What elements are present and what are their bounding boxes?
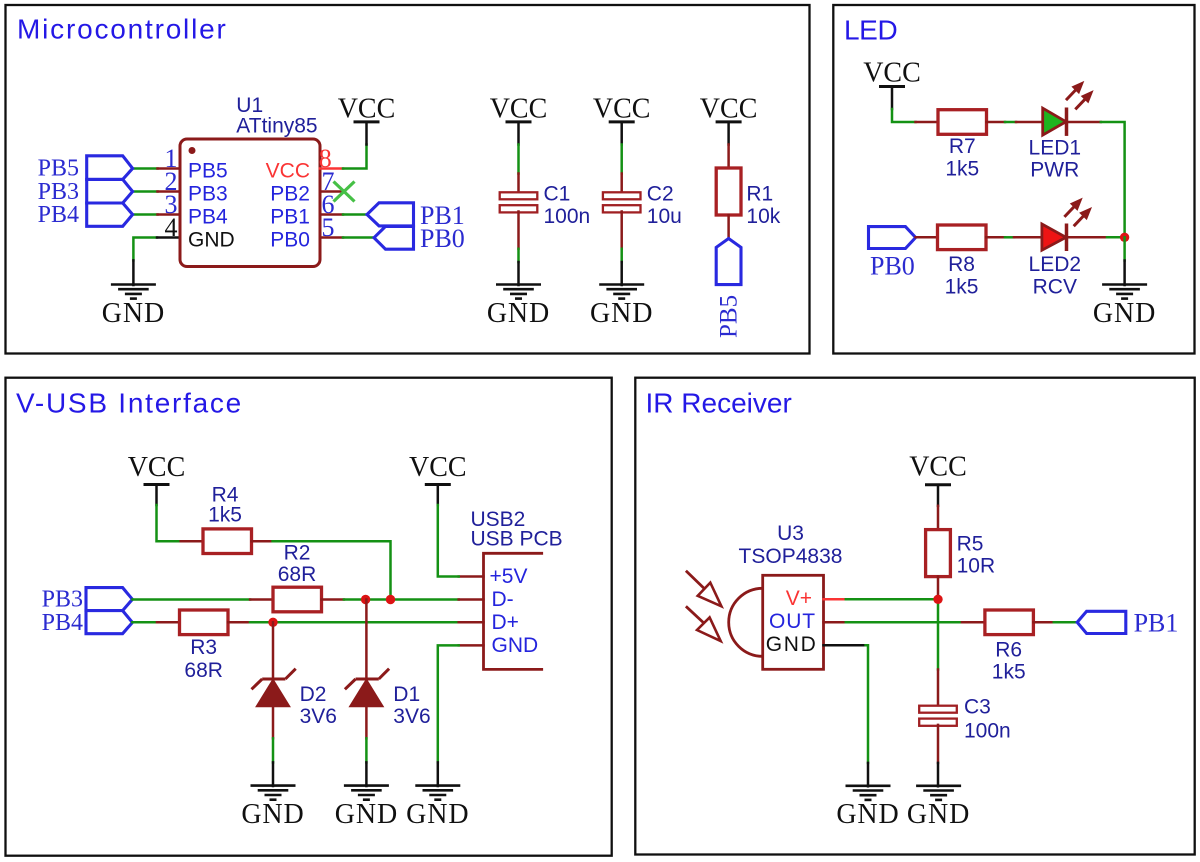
GND stem below U3 (black) xyxy=(867,763,870,786)
wire: junction to GND (green) xyxy=(1123,237,1126,260)
junction dot (LED rail) xyxy=(1120,233,1129,242)
svg-text:D1: D1 xyxy=(393,683,420,706)
lead C3 bottom (maroon) xyxy=(937,725,940,763)
svg-text:PB3: PB3 xyxy=(42,587,83,613)
lead C3 top (maroon) xyxy=(937,670,940,707)
svg-text:PB4: PB4 xyxy=(188,206,228,229)
frame: V-USB Interface section box xyxy=(6,378,612,856)
svg-text:1k5: 1k5 xyxy=(992,660,1026,683)
no-connect X on pin 7 xyxy=(334,182,355,202)
svg-text:C1: C1 xyxy=(544,183,571,206)
svg-text:PB4: PB4 xyxy=(38,202,79,228)
svg-text:C2: C2 xyxy=(647,183,674,206)
net flag PB3 (V-USB) xyxy=(86,588,132,611)
U3 sensor dome xyxy=(729,588,763,656)
IC U1 body xyxy=(180,139,320,267)
ground symbol below U3 xyxy=(846,784,891,787)
lead D1 anode (maroon) xyxy=(365,706,368,738)
lead R6 right (maroon) xyxy=(1033,621,1053,624)
wire: PB4 flag to U1 pin 3 (green) xyxy=(133,213,158,216)
svg-text:OUT: OUT xyxy=(769,610,816,633)
svg-text:10u: 10u xyxy=(647,205,682,228)
lead R7 left (maroon) xyxy=(916,121,939,124)
GND stem below USB (black) xyxy=(437,762,440,786)
svg-text:GND: GND xyxy=(335,799,398,830)
VCC stem (black) xyxy=(155,485,158,506)
resistor R8 xyxy=(938,225,987,250)
svg-text:VCC: VCC xyxy=(128,452,186,483)
VCC stem (black) xyxy=(891,87,894,110)
svg-text:100n: 100n xyxy=(964,719,1011,742)
GND stem below C2 (black) xyxy=(620,262,623,285)
lead C1 top (maroon) xyxy=(517,174,520,194)
frame: IR Receiver section box xyxy=(635,378,1194,855)
GND stem below D1 (black) xyxy=(365,762,368,786)
svg-text:D-: D- xyxy=(492,588,514,611)
wire: LED1 to right rail (green) xyxy=(1101,122,1125,237)
svg-text:3V6: 3V6 xyxy=(393,705,430,728)
U1 pin-1 orientation dot xyxy=(189,147,196,154)
svg-text:GND: GND xyxy=(836,799,899,830)
pin lead U3 GND (black) xyxy=(824,644,866,647)
svg-text:PB2: PB2 xyxy=(270,183,310,206)
resistor R1 xyxy=(716,168,741,215)
svg-text:VCC: VCC xyxy=(863,58,921,89)
svg-text:4: 4 xyxy=(165,213,178,242)
svg-text:PB4: PB4 xyxy=(42,610,83,636)
svg-text:R5: R5 xyxy=(957,533,984,556)
pin lead U1-7 (maroon) xyxy=(320,190,343,193)
pin lead U1-6 (maroon) xyxy=(320,213,343,216)
svg-text:10R: 10R xyxy=(957,554,996,577)
connector USB2 body (open box) xyxy=(484,553,542,669)
zener diode D1 lead from D- (maroon) xyxy=(365,600,368,678)
lead C1 bottom (maroon) xyxy=(517,212,520,249)
svg-text:68R: 68R xyxy=(278,563,317,586)
pin lead USB D+ (maroon) xyxy=(459,621,484,624)
pin lead USB +5V (maroon) xyxy=(459,575,484,578)
svg-text:100n: 100n xyxy=(544,205,591,228)
lead R5 bottom (maroon) xyxy=(937,577,940,600)
ground symbol below C2 xyxy=(599,283,644,286)
svg-text:GND: GND xyxy=(1093,298,1156,329)
frame: LED section box xyxy=(833,5,1194,354)
svg-text:IR Receiver: IR Receiver xyxy=(646,388,792,419)
resistor R3 xyxy=(180,610,229,635)
svg-text:V+: V+ xyxy=(786,587,812,610)
pin lead USB GND (maroon) xyxy=(459,644,484,647)
lead LED2 anode (maroon) xyxy=(1014,236,1042,239)
svg-text:PB1: PB1 xyxy=(1134,608,1179,637)
svg-text:GND: GND xyxy=(487,298,550,329)
wire: PB4 flag to R3 (green) xyxy=(132,621,157,624)
wire: R3 to USB D+ (green) xyxy=(250,621,459,624)
GND stem (black) xyxy=(1123,261,1126,286)
ground symbol below C3 xyxy=(916,784,961,787)
svg-text:PB5: PB5 xyxy=(188,160,228,183)
pin lead U3 V+ (red) xyxy=(824,598,846,601)
svg-text:Microcontroller: Microcontroller xyxy=(17,14,228,45)
svg-text:PB0: PB0 xyxy=(420,224,465,253)
svg-text:10k: 10k xyxy=(746,205,780,228)
lead LED2 cathode (maroon) xyxy=(1068,236,1107,239)
LED1 cathode bar xyxy=(1065,108,1069,136)
LED2 cathode bar xyxy=(1065,224,1069,252)
wire: V+ to R5 junction (green) xyxy=(846,598,938,601)
ground symbol below D2 xyxy=(251,784,296,787)
wire: C1 to GND (green) xyxy=(517,249,520,262)
net flag PB5 (left stack) xyxy=(87,156,133,180)
lead R5 top (maroon) xyxy=(937,506,940,531)
svg-text:R1: R1 xyxy=(746,183,773,206)
resistor R2 xyxy=(273,587,322,612)
wire: VCC elbow to R4 (green) xyxy=(157,505,181,541)
svg-text:VCC: VCC xyxy=(409,452,467,483)
svg-text:VCC: VCC xyxy=(909,452,967,483)
svg-text:USB PCB: USB PCB xyxy=(471,528,563,551)
wire: VCC to C2 (green) xyxy=(620,145,623,174)
pin lead USB D- (maroon) xyxy=(459,598,484,601)
LED LED1 (green) triangle xyxy=(1043,108,1066,135)
pin lead U1-8 VCC (red) xyxy=(320,167,343,170)
svg-text:PB5: PB5 xyxy=(716,295,743,338)
zener diode D2 xyxy=(262,678,285,681)
zener diode D1 xyxy=(356,678,379,681)
svg-text:GND: GND xyxy=(907,799,970,830)
svg-text:VCC: VCC xyxy=(700,93,758,124)
svg-text:LED2: LED2 xyxy=(1029,253,1082,276)
svg-text:+5V: +5V xyxy=(490,565,528,588)
resistor R7 xyxy=(938,110,987,135)
svg-text:3V6: 3V6 xyxy=(300,705,337,728)
IC U3 body (TSOP4838) xyxy=(763,575,824,669)
resistor R5 xyxy=(926,530,951,577)
svg-text:GND: GND xyxy=(406,799,469,830)
wire: junction down to C3 (green) xyxy=(937,599,940,669)
lead LED1 cathode (maroon) xyxy=(1068,121,1101,124)
GND stem below C1 (black) xyxy=(517,262,520,285)
ground symbol below U1 xyxy=(111,283,156,286)
lead C2 bottom (maroon) xyxy=(620,212,623,249)
svg-text:U3: U3 xyxy=(777,522,804,545)
ground symbol below D1 xyxy=(344,784,389,787)
svg-text:R2: R2 xyxy=(284,542,311,565)
wire: USB GND elbow down (green) xyxy=(438,645,459,762)
frame: Microcontroller section box xyxy=(6,5,810,354)
wire: U3 GND elbow down (green) xyxy=(866,645,868,763)
svg-text:R6: R6 xyxy=(995,638,1022,661)
lead R3 left (maroon) xyxy=(157,621,180,624)
wire: VCC to C1 (green) xyxy=(517,145,520,174)
svg-text:PWR: PWR xyxy=(1030,158,1079,181)
svg-text:R3: R3 xyxy=(190,636,217,659)
svg-text:1k5: 1k5 xyxy=(208,503,242,526)
VCC stem above R1 (black) xyxy=(727,122,730,145)
wire segment (green) xyxy=(1005,236,1014,239)
junction dot V+ / R5 xyxy=(933,595,942,604)
svg-text:GND: GND xyxy=(590,298,653,329)
wire segment (green) xyxy=(1005,121,1016,124)
LED1 emission arrows xyxy=(1066,90,1076,100)
wire: VCC to USB +5V (green elbow) xyxy=(438,505,459,577)
wire: U1 pin 5 to PB0 flag (green) xyxy=(343,236,374,239)
lead D2 anode (maroon) xyxy=(272,706,275,738)
svg-text:GND: GND xyxy=(188,229,235,252)
VCC stem above C2 (black) xyxy=(620,122,623,145)
capacitor C1 xyxy=(500,192,538,199)
ground symbol in LED box xyxy=(1102,283,1147,286)
ground symbol below C1 xyxy=(496,283,541,286)
GND stem below D2 (black) xyxy=(272,762,275,786)
lead R4 left (maroon) xyxy=(181,540,203,543)
lead R3 right (maroon) xyxy=(228,621,250,624)
svg-text:R8: R8 xyxy=(948,253,975,276)
lead R8 to LED2 (maroon) xyxy=(986,236,1005,239)
net flag PB1 (right) xyxy=(367,203,414,226)
resistor R4 xyxy=(203,529,252,554)
net flag PB4 (left stack) xyxy=(87,203,133,226)
pin lead U1-2 (maroon) xyxy=(158,190,182,193)
lead R7 to LED1 (maroon) xyxy=(987,121,1006,124)
IR ray arrow 1 (hollow) xyxy=(686,571,707,591)
VCC stem above C1 (black) xyxy=(517,122,520,145)
wire: R6 to PB1 flag (green) xyxy=(1054,621,1077,624)
net flag PB1 (IR box) xyxy=(1077,611,1126,633)
svg-text:68R: 68R xyxy=(184,659,223,682)
lead R6 left (maroon) xyxy=(962,621,985,624)
lead R2 right (maroon) xyxy=(322,598,344,601)
wire: U1 pin 4 GND elbow (green) xyxy=(133,238,157,261)
svg-text:D2: D2 xyxy=(300,683,327,706)
svg-text:VCC: VCC xyxy=(490,93,548,124)
lead C2 top (maroon) xyxy=(620,174,623,194)
junction dot D+ / D2 xyxy=(268,618,277,627)
wire: U1 pin 6 to PB1 flag (green) xyxy=(343,213,367,216)
net flag PB4 (V-USB) xyxy=(86,611,132,634)
svg-text:LED: LED xyxy=(844,15,897,46)
svg-text:GND: GND xyxy=(241,799,304,830)
svg-text:VCC: VCC xyxy=(338,93,396,124)
svg-text:RCV: RCV xyxy=(1033,276,1077,299)
svg-text:PB0: PB0 xyxy=(870,252,915,281)
LED2 emission arrows xyxy=(1064,207,1074,217)
svg-text:VCC: VCC xyxy=(593,93,651,124)
svg-text:C3: C3 xyxy=(964,695,991,718)
net flag PB5 (below R1, pointing up) xyxy=(716,239,741,285)
net flag PB0 (LED box) xyxy=(869,227,916,249)
wire: R2 to USB D- (green) xyxy=(344,598,459,601)
wire: OUT to R6 (green) xyxy=(846,621,962,624)
ground symbol below USB connector xyxy=(415,784,460,787)
svg-text:PB1: PB1 xyxy=(270,206,310,229)
svg-text:TSOP4838: TSOP4838 xyxy=(739,545,843,568)
capacitor C2 xyxy=(603,192,641,199)
lead R4 right (maroon) xyxy=(252,540,273,543)
svg-text:1k5: 1k5 xyxy=(945,276,979,299)
VCC stem (black) xyxy=(937,485,940,506)
net flag PB3 (left stack) xyxy=(87,179,133,203)
pin lead U1-3 (maroon) xyxy=(158,213,182,216)
svg-text:PB5: PB5 xyxy=(38,156,79,182)
pin lead U1-5 (maroon) xyxy=(320,236,343,239)
wire: D1 to GND (green) xyxy=(365,738,368,762)
pin lead U3 OUT (maroon) xyxy=(824,621,846,624)
wire: U1 pin 8 to VCC (green elbow) xyxy=(343,145,367,169)
wire: LED2 to junction (green) xyxy=(1107,236,1125,239)
svg-text:GND: GND xyxy=(492,634,539,657)
resistor R6 xyxy=(985,610,1034,635)
wire: C2 to GND (green) xyxy=(620,249,623,262)
zener diode D2 lead from D+ (maroon) xyxy=(272,622,275,677)
svg-text:LED1: LED1 xyxy=(1029,136,1082,159)
IR ray arrow 2 (hollow) xyxy=(686,606,706,625)
LED LED2 (red) triangle xyxy=(1042,224,1066,250)
pin lead U1-4 (black) xyxy=(157,236,181,239)
wire: PB3 flag to U1 pin 2 (green) xyxy=(133,190,158,193)
net flag PB0 (right) xyxy=(374,226,414,249)
svg-text:GND: GND xyxy=(766,633,818,656)
svg-text:ATtiny85: ATtiny85 xyxy=(236,114,317,137)
wire: R4 to D- rail (green elbow) xyxy=(273,541,391,599)
lead R1 bottom (maroon) xyxy=(727,215,730,239)
wire: PB5 flag to U1 pin 1 (green) xyxy=(133,167,158,170)
wire: PB3 flag to R2 (green) xyxy=(132,598,250,601)
lead R2 left (maroon) xyxy=(250,598,273,601)
lead LED1 anode (maroon) xyxy=(1016,121,1043,124)
wire: D2 to GND (green) xyxy=(272,738,275,762)
svg-text:1k5: 1k5 xyxy=(945,158,979,181)
VCC stem (black) xyxy=(437,485,440,506)
svg-text:PB3: PB3 xyxy=(188,183,228,206)
VCC stem above U1 (black) xyxy=(365,122,368,145)
pin lead U1-1 (maroon) xyxy=(158,167,182,170)
wire: GND stem under U1 pin 4 (black) xyxy=(132,260,135,285)
svg-text:V-USB Interface: V-USB Interface xyxy=(16,388,243,419)
lead R1 top (maroon) xyxy=(727,145,730,170)
capacitor C3 xyxy=(919,706,957,713)
svg-text:VCC: VCC xyxy=(266,160,310,183)
junction dot D- / D1 xyxy=(361,595,370,604)
lead PB0 flag to R8 (maroon) xyxy=(916,236,938,239)
svg-text:R7: R7 xyxy=(949,135,976,158)
GND stem below C3 (black) xyxy=(937,763,940,786)
svg-text:GND: GND xyxy=(102,298,165,329)
svg-text:D+: D+ xyxy=(492,611,519,634)
wire: VCC elbow to R7 (green) xyxy=(892,109,916,122)
junction dot D- / R4 branch xyxy=(386,595,395,604)
svg-text:PB0: PB0 xyxy=(270,229,310,252)
